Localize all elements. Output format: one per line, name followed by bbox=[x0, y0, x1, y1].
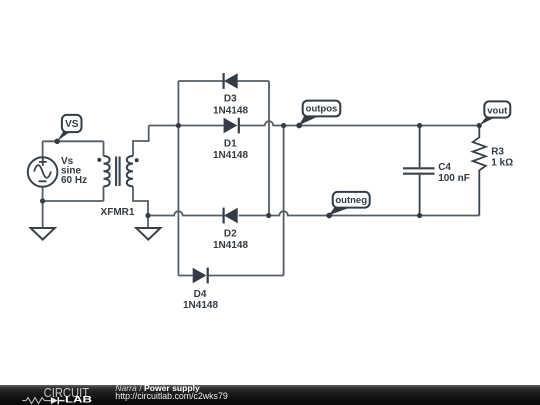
svg-text:VS: VS bbox=[65, 119, 79, 130]
svg-text:C4: C4 bbox=[438, 162, 451, 173]
svg-text:1 kΩ: 1 kΩ bbox=[491, 158, 513, 169]
svg-text:60 Hz: 60 Hz bbox=[61, 175, 87, 186]
svg-text:100 nF: 100 nF bbox=[438, 173, 470, 184]
svg-text:R3: R3 bbox=[491, 146, 504, 157]
svg-text:D4: D4 bbox=[194, 289, 207, 300]
svg-text:1N4148: 1N4148 bbox=[213, 240, 248, 251]
svg-text:D2: D2 bbox=[224, 229, 237, 240]
svg-text:LAB: LAB bbox=[65, 394, 93, 404]
svg-text:D3: D3 bbox=[224, 94, 237, 105]
svg-text:D1: D1 bbox=[224, 139, 237, 150]
svg-text:1N4148: 1N4148 bbox=[213, 150, 248, 161]
svg-text:1N4148: 1N4148 bbox=[183, 300, 218, 311]
svg-text:XFMR1: XFMR1 bbox=[101, 207, 135, 218]
svg-text:outpos: outpos bbox=[306, 104, 338, 115]
svg-text:outneg: outneg bbox=[335, 195, 367, 206]
svg-text:vout: vout bbox=[487, 106, 508, 117]
svg-text:1N4148: 1N4148 bbox=[213, 105, 248, 116]
